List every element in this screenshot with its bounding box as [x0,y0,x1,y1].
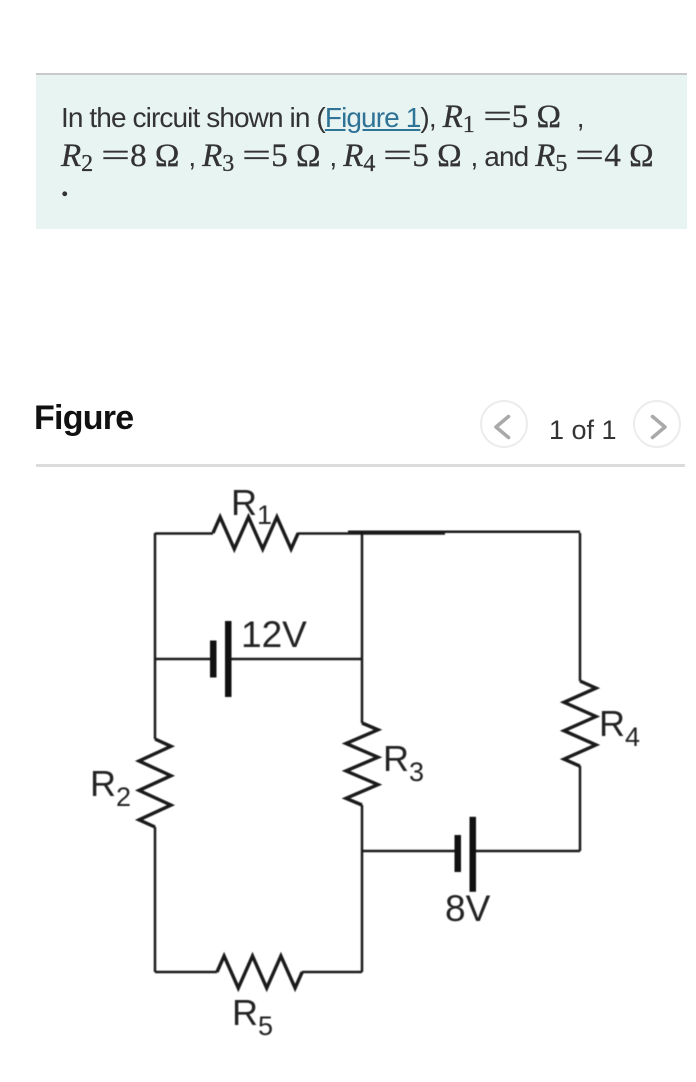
svg-text:R2: R2 [90,763,131,812]
svg-text:8V: 8V [445,888,491,929]
svg-text:R3: R3 [383,738,424,787]
svg-text:R1: R1 [231,482,272,530]
svg-text:R4: R4 [599,703,640,752]
svg-text:R5: R5 [232,992,273,1041]
svg-text:12V: 12V [241,614,307,655]
